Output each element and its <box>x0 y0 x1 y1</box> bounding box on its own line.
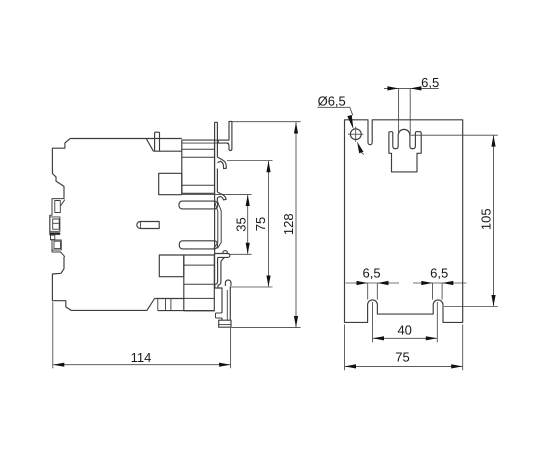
svg-text:6,5: 6,5 <box>363 265 381 280</box>
arrow 35 top <box>246 195 250 206</box>
clip spring dark bar <box>50 232 60 234</box>
128 dimension line <box>295 122 297 327</box>
upper terminal block <box>182 140 215 193</box>
arrow 114 right <box>219 363 230 367</box>
upper left box <box>159 173 182 194</box>
plate junction to arm <box>215 282 221 289</box>
arrow 6,5 br right <box>442 281 453 285</box>
shelf under tab <box>153 150 181 152</box>
105 extension lines <box>410 134 498 136</box>
plate hook 3 (bar with bump) <box>223 251 228 254</box>
arrow 75 bottom <box>266 276 270 287</box>
dimension texts: left view <box>131 213 296 364</box>
svg-text:75: 75 <box>253 217 268 231</box>
75 extension lines (right view) <box>344 324 346 370</box>
arrow 6,5 br left <box>421 281 432 285</box>
svg-text:6,5: 6,5 <box>430 265 448 280</box>
75 extension lines <box>227 160 273 162</box>
hole crosshair <box>348 127 363 142</box>
6,5 bottom-right dimension <box>413 282 466 284</box>
rounded bar 1 <box>179 201 218 209</box>
arrow o6,5 upper <box>347 115 353 130</box>
105 dimension line <box>493 136 495 307</box>
114 dimension line <box>53 364 230 366</box>
lower left box <box>159 255 184 277</box>
svg-text:35: 35 <box>233 217 248 231</box>
arrows: left view <box>53 122 298 367</box>
plate below hook3 <box>218 257 225 281</box>
arrow 40 right <box>426 336 437 340</box>
dimensions: right view <box>318 88 498 370</box>
114 extension lines <box>52 302 54 368</box>
svg-text:6,5: 6,5 <box>421 75 439 90</box>
footprint outline with top notch and bottom slots <box>345 120 463 323</box>
6,5 bottom-left dimension <box>346 282 400 284</box>
clip notch <box>61 200 65 206</box>
arrow 75 top <box>266 161 270 172</box>
left view: contactor body outline <box>52 139 183 311</box>
dimension texts: right view <box>318 75 494 365</box>
oval pill slot <box>137 222 159 229</box>
keyhole crown cutout <box>389 129 421 172</box>
svg-text:114: 114 <box>131 350 152 365</box>
plate hook 2 <box>217 192 226 200</box>
clip inner detail rectangles <box>55 201 61 213</box>
svg-text:Ø6,5: Ø6,5 <box>318 93 346 108</box>
din mounting plate (vertical) <box>215 122 218 288</box>
plate hook 1 <box>217 157 226 169</box>
arrow o6,5 lower <box>357 142 363 154</box>
arrow 105 top <box>491 135 495 146</box>
arrow 6,5 bl left <box>357 281 368 285</box>
128 extension lines <box>232 121 301 123</box>
plate hook 4 (curl on arm top) <box>225 280 231 286</box>
75 dimension line <box>268 161 270 287</box>
plate bottom arm <box>215 286 231 320</box>
top tab <box>155 132 160 151</box>
o6,5 leader <box>318 107 353 115</box>
arrow 6,5 bl right <box>377 281 388 285</box>
lower foot detail <box>157 299 159 311</box>
gamma bracket top right <box>218 121 232 150</box>
35 dimension line <box>247 195 249 254</box>
arrow 128 bottom <box>294 316 298 327</box>
plate bulge <box>214 201 221 248</box>
6,5 top dimension line <box>384 87 439 89</box>
arrow 6,5 top right <box>410 86 421 90</box>
arrow 105 bottom <box>491 295 495 306</box>
svg-text:40: 40 <box>397 323 411 338</box>
35 extension lines <box>182 193 252 195</box>
mounting hole circle <box>350 129 361 140</box>
arrows: right view <box>345 86 496 368</box>
din rail clip (left side) <box>50 199 65 257</box>
svg-text:128: 128 <box>281 213 296 235</box>
svg-text:105: 105 <box>478 208 493 230</box>
6,5 top extension lines <box>398 88 400 134</box>
arrow 40 left <box>373 336 384 340</box>
arrow 35 bottom <box>246 243 250 254</box>
40 dimension line <box>373 337 437 339</box>
arrow 6,5 top left <box>387 86 398 90</box>
75 dimension line (right view) <box>345 365 462 367</box>
40 extension lines <box>372 302 374 342</box>
svg-text:75: 75 <box>395 349 409 364</box>
lower terminal block <box>184 255 215 311</box>
plate bottom foot <box>219 320 231 327</box>
rounded bar 2 <box>179 241 217 249</box>
arrow 75r left <box>345 364 356 368</box>
arrow 75r right <box>451 364 462 368</box>
arrow 128 top <box>294 122 298 133</box>
arrow 114 left <box>53 363 64 367</box>
